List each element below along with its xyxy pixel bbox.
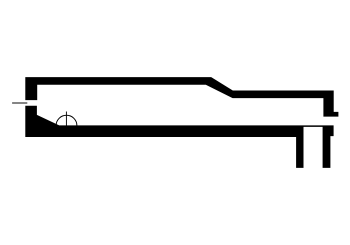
dome arc (rivet head) (56, 115, 77, 125)
lower profile (bottom rail with left ramp block, end strip, two legs) (25, 106, 333, 168)
dome centerline (65, 112, 67, 128)
upper profile (top rail with jog and right end flange) (25, 77, 338, 117)
left datum line (12, 102, 27, 104)
